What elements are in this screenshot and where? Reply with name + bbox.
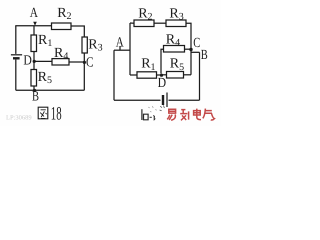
- node C junction dot (right): [189, 48, 192, 51]
- wire: R2 right to top-right corner and down to R3: [71, 26, 84, 37]
- wire: from A junction down to R1: [33, 26, 35, 35]
- hanzi DIAN: [194, 109, 201, 120]
- wire: R3 right corner down vertical to R5 right corner: [186, 23, 191, 75]
- resistor R2 box: [52, 23, 72, 30]
- wire: D dot to R5: [162, 74, 167, 76]
- resistor R1 box: [31, 35, 37, 52]
- wire: left vertical from battery to bottom corner: [15, 60, 17, 91]
- wire: R2 to R3 link: [154, 22, 166, 24]
- svg-text:C: C: [193, 36, 200, 51]
- wire: R4 right to C dot: [185, 48, 192, 50]
- hanzi TU (figure) left: [38, 107, 48, 119]
- wire: bottom wire: [16, 89, 85, 91]
- wire: B tick to C vertical: [191, 51, 200, 53]
- wire: bottom wire right of battery: [169, 99, 200, 101]
- battery G1: short thick plate: [13, 57, 20, 59]
- wire: right vertical up to B tick: [199, 52, 201, 100]
- resistor R5 box (right): [167, 72, 184, 79]
- svg-text:B: B: [32, 90, 39, 105]
- wire: bottom wire left of battery: [114, 99, 161, 101]
- svg-text:LP:30689: LP:30689: [6, 115, 32, 122]
- resistor R5 box: [31, 70, 37, 87]
- wire: R5 bottom to bottom wire: [33, 86, 35, 90]
- svg-text:C: C: [86, 55, 94, 70]
- wire: R5 right to C vertical: [184, 74, 192, 76]
- node C junction dot: [83, 61, 86, 64]
- svg-text:R5: R5: [38, 70, 52, 86]
- svg-text:R2: R2: [138, 6, 152, 22]
- resistor R3 box: [82, 37, 87, 53]
- wire: riser top corner to R2: [130, 22, 134, 24]
- svg-text:R3: R3: [88, 37, 102, 53]
- wire: left vertical A to bottom: [113, 50, 115, 100]
- hanzi 2: [180, 109, 188, 120]
- wire: D junction to R4: [34, 60, 52, 62]
- node D junction dot: [33, 60, 36, 63]
- node D junction dot (right): [160, 74, 163, 77]
- wire: R4 left wire down to D dot: [161, 49, 164, 73]
- resistor R1 box (right): [137, 72, 157, 78]
- battery G2: short thick plate: [162, 95, 164, 105]
- svg-text:B: B: [201, 48, 208, 63]
- svg-text:D: D: [23, 53, 32, 68]
- resistor R3 box (right): [166, 20, 186, 27]
- svg-text:R3: R3: [169, 6, 183, 22]
- resistor R4 box (right): [164, 46, 185, 53]
- wire: A row wire: [114, 49, 130, 51]
- wire: R1 bottom to D junction: [33, 52, 35, 62]
- wire: R4 right to C junction: [69, 61, 84, 63]
- wire: top wire from left corner to R2: [15, 25, 51, 27]
- wire: R1 right to D dot: [157, 74, 162, 76]
- resistor R4 box: [52, 59, 69, 65]
- svg-text:R5: R5: [170, 57, 184, 73]
- resistor R2 box (right): [134, 20, 154, 27]
- grey watermark bottom left: [6, 115, 32, 122]
- svg-text:R1: R1: [141, 57, 155, 73]
- svg-text:R4: R4: [166, 32, 180, 48]
- wire: R3 bottom to C junction and down to bottom wire: [83, 53, 85, 90]
- wire: riser bottom corner to R1: [130, 74, 137, 76]
- svg-text:A: A: [30, 6, 39, 21]
- hanzi QI: [203, 109, 215, 120]
- caption Fig 19 fragments (degraded by watermark): [142, 105, 165, 120]
- red watermark: yi xx dian qi: [167, 109, 214, 121]
- wire: left vertical from top corner to battery: [15, 26, 17, 54]
- battery G1: long plate: [11, 54, 22, 56]
- svg-text:D: D: [158, 76, 167, 91]
- wire: left riser from R2 level down to R1 level: [129, 23, 131, 75]
- svg-text:R1: R1: [38, 33, 52, 49]
- svg-text:R4: R4: [54, 46, 68, 62]
- svg-text:A: A: [116, 35, 125, 50]
- node A junction dot: [33, 22, 37, 26]
- node A tick: [119, 46, 121, 50]
- wire: D junction down to R5: [33, 61, 35, 69]
- hanzi YI: [167, 109, 175, 120]
- node B junction dot: [33, 89, 36, 92]
- svg-text:18: 18: [51, 103, 62, 124]
- caption Fig 18: [38, 103, 61, 124]
- battery G2: long plate: [166, 93, 168, 108]
- svg-text:R2: R2: [57, 6, 71, 22]
